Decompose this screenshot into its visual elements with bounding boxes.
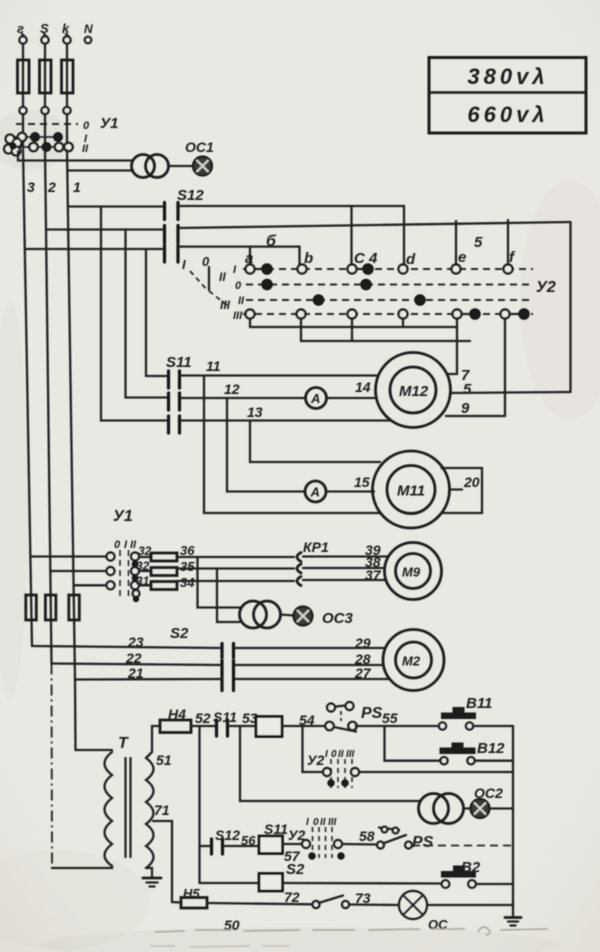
tap 71 wire down to H5 xyxy=(153,802,181,903)
coil S12 xyxy=(256,717,282,737)
lamp OC1 xyxy=(169,139,215,176)
svg-text:660vλ: 660vλ xyxy=(467,102,548,127)
transformer for lamp OC3 xyxy=(198,557,281,628)
wire 14 to M12 xyxy=(327,379,377,398)
svg-text:52: 52 xyxy=(195,710,211,726)
svg-text:У1: У1 xyxy=(113,508,133,525)
wire drop to B12 row xyxy=(383,726,385,761)
svg-text:А: А xyxy=(310,391,320,406)
drum contacts row III xyxy=(246,309,530,319)
wire 53 xyxy=(229,710,258,726)
wire 1 (right feeder) xyxy=(67,150,81,680)
right control rail xyxy=(512,726,514,905)
svg-text:У1: У1 xyxy=(100,115,119,132)
svg-text:М2: М2 xyxy=(402,654,421,669)
switch Y1 lower section (M9 selector) xyxy=(107,508,140,601)
contactor S2 main contacts xyxy=(170,625,234,691)
transformer for lamp OC2 xyxy=(240,726,464,824)
ammeter A2 xyxy=(305,481,326,502)
fuse H4 xyxy=(160,706,191,733)
drum contacts row I xyxy=(246,264,513,274)
svg-text:II: II xyxy=(320,817,326,828)
heater box row2 (wire 32-35) xyxy=(136,559,177,576)
wire S12 row1 output (wire 4) to columns c,d xyxy=(180,206,405,265)
wire feeder1 to Y1 row3 xyxy=(74,584,107,586)
pressure switch PS1 xyxy=(325,702,382,732)
svg-text:380vλ: 380vλ xyxy=(467,64,548,89)
fuse F5 (on feeder 2) xyxy=(45,595,56,620)
terminal L3 (k) xyxy=(62,21,71,44)
svg-text:S12: S12 xyxy=(177,187,204,204)
motor M2 xyxy=(383,630,444,691)
wire 27 to M2 xyxy=(235,665,390,681)
svg-text:0: 0 xyxy=(313,817,319,828)
svg-text:S11: S11 xyxy=(264,821,288,837)
drum bottom bus A xyxy=(250,319,457,328)
wire 52 xyxy=(191,710,216,726)
svg-text:55: 55 xyxy=(382,710,398,726)
svg-text:15: 15 xyxy=(354,474,370,490)
wire 13 drop to M11 xyxy=(250,421,380,463)
wire 39 to M9 xyxy=(303,542,388,558)
svg-text:3: 3 xyxy=(27,179,35,195)
svg-text:0: 0 xyxy=(83,120,90,132)
ground at transformer secondary xyxy=(143,868,161,887)
wire feeder3 to Y1 row1 xyxy=(31,555,107,557)
svg-text:ОС3: ОС3 xyxy=(322,610,354,627)
terminal L1 (г) xyxy=(17,21,27,44)
selector lever of Y2 xyxy=(182,254,231,312)
drum contacts row 0 xyxy=(262,280,371,290)
feeder to S11 row2 xyxy=(126,230,167,398)
wire from feeder 1 to S12 row1 xyxy=(69,205,163,207)
drum switch Y2 row II xyxy=(238,295,533,307)
wire 23 xyxy=(32,634,222,650)
svg-text:12: 12 xyxy=(224,381,240,397)
svg-text:КР1: КР1 xyxy=(303,539,329,555)
svg-text:PS: PS xyxy=(361,705,383,722)
contactor S12 main contacts xyxy=(165,187,205,262)
drum switch Y2 row III xyxy=(233,310,533,322)
svg-text:В11: В11 xyxy=(466,695,492,712)
terminal N xyxy=(84,22,93,43)
switch Y1 top section xyxy=(4,114,118,155)
heater box row3 (wire 31-34) xyxy=(136,574,177,590)
svg-text:II: II xyxy=(238,295,245,307)
heater box row1 (wire 32-36) xyxy=(138,544,177,561)
wire 12 drop to M11 with ammeter xyxy=(227,398,305,492)
svg-text:II: II xyxy=(82,143,89,155)
motor M12 xyxy=(376,353,451,428)
drum switch Y2 row 0 xyxy=(235,280,533,292)
dashed wire PS2 to rail xyxy=(412,845,513,847)
wire 3 (left feeder) xyxy=(23,150,35,646)
drum contacts row II xyxy=(314,295,426,305)
svg-text:ОС1: ОС1 xyxy=(185,139,214,155)
fuse F4 (on feeder 3) xyxy=(26,595,37,620)
feeder to S11 row1 xyxy=(146,249,166,376)
terminal L2 (S) xyxy=(40,21,49,44)
svg-text:0: 0 xyxy=(235,280,242,292)
wire from feeder 2 to S12 row2 xyxy=(46,228,163,230)
svg-text:36: 36 xyxy=(180,543,195,558)
svg-text:2: 2 xyxy=(47,179,56,195)
feeder to S11 row3 xyxy=(101,207,166,421)
wire 38 to M9 xyxy=(303,554,385,570)
svg-text:e: e xyxy=(458,249,466,266)
wire 2 continuation to transformer T primary return xyxy=(51,664,54,869)
wire 36 xyxy=(177,543,294,558)
control transformer T xyxy=(52,680,154,869)
fuse F1 xyxy=(18,44,30,115)
Y2 aux contact group 2 xyxy=(288,817,377,859)
wire 54 xyxy=(282,712,326,728)
svg-text:11: 11 xyxy=(206,358,221,374)
svg-text:1: 1 xyxy=(73,179,81,195)
fuse F3 xyxy=(62,44,74,115)
svg-text:PS: PS xyxy=(412,834,434,851)
svg-text:0: 0 xyxy=(331,749,337,760)
motor M11 xyxy=(373,451,450,528)
signal lamp OC bottom xyxy=(399,891,513,932)
svg-text:II: II xyxy=(219,270,226,284)
wire 11 drop to M11 xyxy=(204,376,381,514)
svg-text:20: 20 xyxy=(463,474,480,490)
svg-text:71: 71 xyxy=(154,802,170,818)
svg-text:У2: У2 xyxy=(307,752,324,768)
svg-text:I: I xyxy=(306,817,309,828)
svg-text:S12: S12 xyxy=(215,827,240,843)
contactor S11 main contacts xyxy=(166,354,192,433)
drum switch Y2 row I xyxy=(233,264,533,276)
wire 35 xyxy=(177,559,294,574)
wire 34 xyxy=(177,575,294,590)
wire S12 row2 output (wire 5) to columns e,f and riser xyxy=(180,220,571,392)
wire S12 row3 output (wire 6) to columns a,b xyxy=(180,247,300,265)
Y2 aux contact group 1 xyxy=(303,726,514,788)
svg-text:0: 0 xyxy=(114,539,121,551)
svg-text:5: 5 xyxy=(474,234,483,251)
drum bottom bus B xyxy=(301,319,470,342)
wire 13 to M12 xyxy=(181,404,390,421)
svg-text:III: III xyxy=(346,749,355,760)
wire 55 xyxy=(356,710,440,726)
svg-text:М12: М12 xyxy=(399,383,429,400)
svg-text:М9: М9 xyxy=(402,565,421,580)
svg-text:72: 72 xyxy=(284,889,300,905)
svg-text:I: I xyxy=(325,749,328,760)
S12 aux contact (56 row) xyxy=(200,827,260,854)
tap 51 wire to fuse H4 xyxy=(146,726,172,768)
wire 73 xyxy=(349,890,399,906)
svg-text:S11: S11 xyxy=(166,354,192,371)
svg-text:III: III xyxy=(328,817,337,828)
svg-text:51: 51 xyxy=(156,752,172,768)
coil S2 xyxy=(200,861,442,891)
wire 29 to M2 xyxy=(235,635,386,651)
svg-text:35: 35 xyxy=(180,559,195,574)
thermal relay KP1 contacts xyxy=(297,539,329,586)
motor M9 xyxy=(385,543,442,600)
wire 11 to M12 xyxy=(181,358,378,376)
svg-text:14: 14 xyxy=(355,379,371,395)
wire 12 with ammeter xyxy=(181,381,306,398)
fuse H5 xyxy=(181,886,207,908)
wire 57 xyxy=(283,844,303,864)
svg-text:У2: У2 xyxy=(536,279,556,296)
lamp OC2 xyxy=(464,785,514,818)
svg-text:I: I xyxy=(182,257,186,272)
wire 15 to M11 xyxy=(327,474,375,492)
wire 28 to M2 xyxy=(235,651,384,667)
voltage table 380v/660v xyxy=(429,58,586,134)
fuse F2 xyxy=(40,44,52,115)
lamp OC3 xyxy=(281,607,354,628)
button B11 xyxy=(439,695,513,730)
svg-text:9: 9 xyxy=(461,400,470,417)
wire 7 to M12 xyxy=(447,319,470,385)
wire 20 rotor loop of M11 xyxy=(442,468,483,513)
svg-text:58: 58 xyxy=(359,828,375,844)
wire 37 to M9 xyxy=(303,567,386,583)
fuse F6 (on feeder 1) xyxy=(69,595,80,620)
switch contact 72-73 xyxy=(313,896,350,909)
svg-text:S2: S2 xyxy=(286,861,305,878)
svg-text:В12: В12 xyxy=(477,740,505,757)
ammeter A1 xyxy=(306,388,327,409)
wire 2 (middle feeder) xyxy=(45,150,56,664)
S11 aux contact xyxy=(213,709,237,736)
left control rail xyxy=(198,726,200,883)
svg-text:III: III xyxy=(233,310,243,322)
button B12 xyxy=(385,740,514,764)
wire 9 to M12 xyxy=(446,319,505,418)
pressure switch PS2 xyxy=(377,827,434,851)
svg-text:Т: Т xyxy=(118,735,129,752)
svg-text:13: 13 xyxy=(247,404,263,420)
wire 21 xyxy=(75,665,222,681)
button B2 xyxy=(441,859,513,888)
svg-text:5: 5 xyxy=(463,381,472,398)
svg-text:II: II xyxy=(130,539,137,551)
svg-text:S2: S2 xyxy=(170,625,189,642)
svg-text:N: N xyxy=(84,22,93,36)
svg-text:34: 34 xyxy=(180,575,195,590)
faint scan noise at bottom xyxy=(150,927,548,947)
svg-text:б: б xyxy=(266,233,277,250)
transformer for lamp OC1 xyxy=(18,151,169,178)
wire 22 xyxy=(52,650,223,666)
wire feeder2 to Y1 row2 xyxy=(50,570,106,572)
wire 72 xyxy=(207,889,312,905)
wire 5 to M12 xyxy=(450,381,571,398)
wire from feeder 3 to S12 row3 xyxy=(25,248,163,250)
svg-text:М11: М11 xyxy=(397,483,425,500)
svg-text:d: d xyxy=(406,251,416,268)
ground at right rail xyxy=(505,905,521,926)
svg-text:II: II xyxy=(338,749,344,760)
coil S11 xyxy=(259,821,288,854)
svg-text:А: А xyxy=(310,485,320,500)
